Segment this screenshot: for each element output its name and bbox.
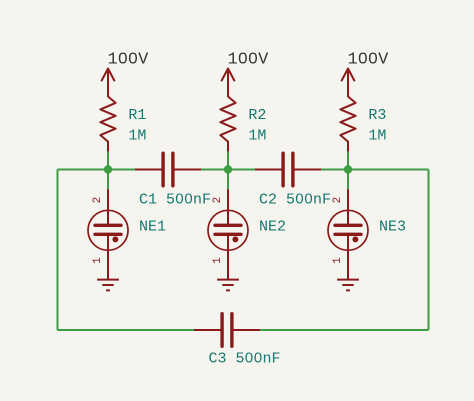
svg-text:R2: R2 bbox=[248, 107, 266, 124]
svg-text:2: 2 bbox=[212, 197, 224, 204]
svg-text:NE3: NE3 bbox=[379, 219, 406, 236]
svg-text:100V: 100V bbox=[108, 51, 150, 70]
svg-text:C1 500nF: C1 500nF bbox=[139, 191, 211, 208]
svg-text:100V: 100V bbox=[228, 51, 270, 70]
svg-text:C2 500nF: C2 500nF bbox=[259, 191, 331, 208]
svg-text:1M: 1M bbox=[248, 127, 266, 144]
svg-text:NE2: NE2 bbox=[259, 219, 286, 236]
svg-text:1: 1 bbox=[332, 257, 344, 264]
svg-text:1: 1 bbox=[92, 257, 104, 264]
svg-text:1M: 1M bbox=[128, 127, 146, 144]
svg-text:NE1: NE1 bbox=[139, 219, 166, 236]
svg-text:1: 1 bbox=[212, 257, 224, 264]
svg-text:C3 500nF: C3 500nF bbox=[209, 351, 281, 368]
svg-text:2: 2 bbox=[332, 197, 344, 204]
svg-text:R3: R3 bbox=[368, 107, 386, 124]
svg-text:R1: R1 bbox=[128, 107, 146, 124]
svg-text:1M: 1M bbox=[368, 127, 386, 144]
svg-text:2: 2 bbox=[92, 197, 104, 204]
svg-text:100V: 100V bbox=[348, 51, 390, 70]
